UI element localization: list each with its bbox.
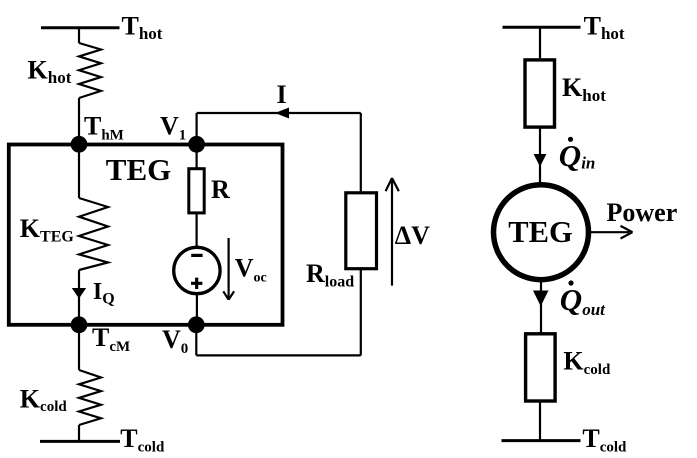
thermal reservoir bar T_cold (right diagram) <box>502 439 581 442</box>
dot over Q_out <box>568 280 573 285</box>
svg-text:Kcold: Kcold <box>563 347 611 379</box>
TEG circle <box>494 185 589 280</box>
wire (bottom return) <box>196 354 360 356</box>
svg-text:Khot: Khot <box>28 55 72 87</box>
minus sign <box>191 254 202 257</box>
current arrowhead I <box>275 108 289 119</box>
svg-text:IQ: IQ <box>93 279 115 308</box>
heat flow arrowhead Q_in <box>534 154 547 167</box>
TEG model box <box>9 145 283 325</box>
wire <box>539 127 541 185</box>
thermal reservoir bar T_hot (left circuit) <box>41 26 120 29</box>
svg-text:Tcold: Tcold <box>120 424 165 456</box>
svg-text:I: I <box>277 80 287 109</box>
heat flow arrowhead I_Q <box>72 288 86 299</box>
svg-text:Tcold: Tcold <box>582 424 627 456</box>
wire <box>196 113 198 144</box>
dot over Q_in <box>568 137 573 142</box>
wire <box>78 325 80 370</box>
svg-text:V1: V1 <box>160 112 186 144</box>
svg-text:Kcold: Kcold <box>20 385 68 416</box>
svg-text:Khot: Khot <box>562 73 606 105</box>
heat flow arrowhead Q_out <box>533 291 549 307</box>
resistor K_TEG (zigzag) <box>79 198 108 270</box>
svg-text:Qout: Qout <box>560 282 606 319</box>
svg-text:ThM: ThM <box>84 112 124 144</box>
node T_cM <box>71 316 88 333</box>
svg-text:Thot: Thot <box>122 11 163 43</box>
resistor K_cold (left, zigzag) <box>79 370 101 425</box>
svg-text:V0: V0 <box>162 325 188 357</box>
svg-text:Power: Power <box>607 198 678 227</box>
wire <box>196 294 198 325</box>
wire <box>196 144 198 168</box>
thermal resistance K_hot (right, rect) <box>525 60 555 127</box>
wire <box>540 280 542 334</box>
resistor K_hot (left, zigzag) <box>79 43 101 98</box>
svg-text:TEG: TEG <box>508 215 572 249</box>
wire <box>539 401 541 441</box>
svg-text:KTEG: KTEG <box>20 214 75 246</box>
wire <box>360 113 362 193</box>
svg-text:TcM: TcM <box>92 323 130 355</box>
voltage source V_oc <box>174 247 220 293</box>
resistor R_load <box>346 193 377 269</box>
svg-text:ΔV: ΔV <box>395 221 430 250</box>
wire <box>78 144 80 198</box>
wire <box>78 98 80 143</box>
thermal reservoir bar T_cold (left circuit) <box>40 440 120 443</box>
voltage arrow dV (up) <box>386 178 399 286</box>
resistor R (internal resistance) <box>189 169 204 213</box>
svg-text:R: R <box>211 175 230 204</box>
node V_1 <box>188 136 205 153</box>
svg-text:TEG: TEG <box>106 152 171 187</box>
wire <box>196 213 198 248</box>
svg-text:Voc: Voc <box>235 253 267 285</box>
power arrow <box>589 226 633 239</box>
wire <box>360 269 362 356</box>
wire <box>195 325 197 356</box>
plus sign <box>191 278 202 289</box>
polarity arrow V_oc (down) <box>223 238 234 300</box>
node T_hM <box>71 136 88 153</box>
wire <box>78 28 80 43</box>
wire (top, to load) <box>197 112 361 114</box>
wire <box>539 27 541 58</box>
svg-text:Thot: Thot <box>584 11 625 43</box>
wire <box>78 425 80 441</box>
node V_0 <box>188 316 205 333</box>
svg-text:Qin: Qin <box>559 138 596 173</box>
thermal reservoir bar T_hot (right diagram) <box>503 26 581 29</box>
thermal resistance K_cold (right, rect) <box>526 334 556 401</box>
wire <box>78 270 80 324</box>
